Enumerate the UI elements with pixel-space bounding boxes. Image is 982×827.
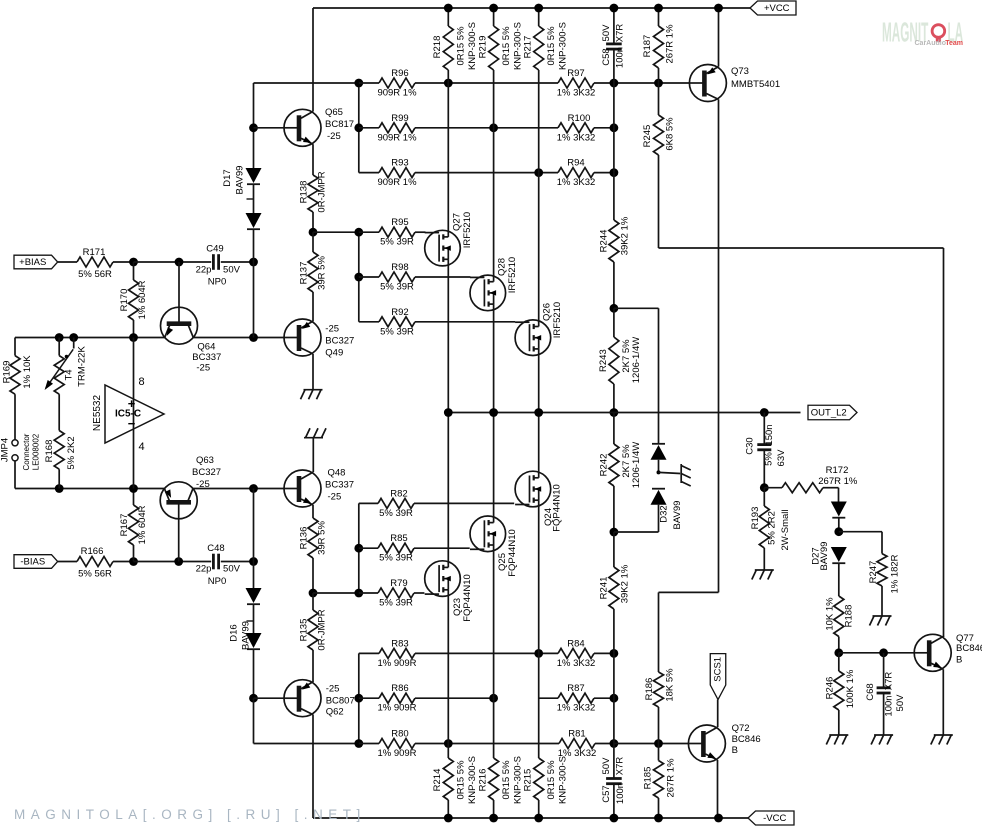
svg-text:FQP44N10: FQP44N10 (462, 574, 473, 622)
node junction C30/R193/R172 (760, 483, 769, 492)
node junction Q72 emitter rail (714, 814, 723, 823)
node junction Q65 base (249, 123, 258, 132)
wire Q25 drain to OUT (493, 413, 495, 518)
svg-text:+: + (128, 396, 136, 411)
node junction R170/opamp (129, 333, 138, 342)
svg-text:R100: R100 (568, 113, 591, 124)
wire bus rows 1-3 (358, 83, 360, 173)
wire D27 junction to R247 (839, 531, 882, 533)
svg-text:R242: R242 (599, 454, 610, 477)
node junction C57 bottom rail (610, 814, 619, 823)
resistor R215 0R15 KNP-300-S (538, 653, 540, 758)
node junction OUT/Q27-Q23 (444, 408, 453, 417)
svg-text:NP0: NP0 (208, 576, 226, 587)
mosfet Q28 IRF5210 (470, 275, 506, 311)
node junction R219 top rail (489, 4, 498, 13)
svg-text:Connector: Connector (22, 433, 31, 470)
svg-text:1% 3K32: 1% 3K32 (557, 88, 596, 99)
wire D16 column upper (253, 489, 255, 562)
node junction row11/C57col (610, 694, 619, 703)
resistor R214 0R15 KNP-300-S (447, 744, 449, 759)
node junction bus row11 (354, 694, 363, 703)
node junction R138/R137/R95 (309, 228, 318, 237)
svg-text:TRM-22K: TRM-22K (77, 346, 88, 387)
svg-text:Q28: Q28 (497, 258, 508, 276)
node junction D16 column / Q48 base (249, 484, 258, 493)
node junction Q63 base (174, 557, 183, 566)
svg-text:0R15 5%: 0R15 5% (456, 26, 467, 66)
svg-text:R84: R84 (567, 638, 584, 649)
svg-text:BC846: BC846 (732, 734, 761, 745)
svg-text:5% 39R: 5% 39R (379, 553, 413, 564)
svg-text:5% 39R: 5% 39R (380, 282, 414, 293)
svg-text:R96: R96 (391, 68, 408, 79)
svg-text:1% 3K32: 1% 3K32 (557, 177, 596, 188)
svg-text:B: B (732, 745, 738, 756)
svg-text:0R15 5%: 0R15 5% (546, 760, 557, 800)
ground below Q49 (304, 389, 323, 391)
node junction row12/R214 (444, 739, 453, 748)
resistor R137 (312, 232, 314, 252)
svg-text:JMP4: JMP4 (0, 438, 11, 462)
node junction OUT/Q28-Q25 (489, 408, 498, 417)
transistor Q49 BC327 (284, 319, 321, 356)
svg-text:R217: R217 (522, 36, 533, 59)
node junction R167/opamp (129, 484, 138, 493)
logo MAGNITOLA top right (882, 17, 963, 48)
svg-text:D17: D17 (222, 169, 233, 186)
svg-text:R136: R136 (299, 527, 310, 550)
wire C49 row (134, 261, 212, 263)
svg-text:BAV99: BAV99 (235, 166, 246, 195)
node junction row2/R219 (489, 123, 498, 132)
svg-text:R99: R99 (391, 113, 408, 124)
wire row1 left link (254, 82, 359, 84)
node junction R218 top rail (444, 4, 453, 13)
flag +BIAS (14, 255, 58, 269)
node junction R217 top rail (534, 4, 543, 13)
node junction T4 wiper (69, 333, 78, 342)
svg-text:R215: R215 (522, 769, 533, 792)
wire Q73 emitter to +VCC (718, 8, 720, 67)
diode D17 BAV99 (246, 168, 262, 183)
resistor R86 (359, 697, 379, 699)
wire -BIAS row (58, 561, 77, 563)
svg-text:1% 909R: 1% 909R (377, 703, 416, 714)
svg-text:8: 8 (138, 376, 144, 388)
svg-text:BC337: BC337 (325, 480, 354, 491)
node junction OUT/Q26-Q24 (534, 408, 543, 417)
ground below R246 (829, 734, 848, 736)
flag +VCC (750, 1, 796, 15)
wire Q64 row (15, 337, 165, 339)
node junction R214 bottom rail (444, 814, 453, 823)
svg-text:−: − (128, 416, 136, 431)
wire Q24 source column (538, 506, 540, 654)
node junction D27/R247 (834, 527, 843, 536)
resistor R167 (133, 489, 135, 506)
diode D27 BAV99 (pair) (831, 502, 847, 517)
wire OUT_L2 bus (448, 412, 800, 414)
wire Q65 base (254, 127, 285, 129)
svg-text:D32: D32 (659, 505, 670, 522)
svg-text:-25: -25 (327, 131, 341, 142)
svg-text:NE5532: NE5532 (92, 394, 103, 431)
svg-text:BC846: BC846 (956, 643, 982, 654)
svg-text:1% 3K32: 1% 3K32 (557, 658, 596, 669)
capacitor C48 (212, 554, 215, 570)
svg-text:SCS1: SCS1 (713, 657, 724, 682)
svg-text:0R15 5%: 0R15 5% (501, 26, 512, 66)
svg-text:R219: R219 (477, 36, 488, 59)
svg-text:T4: T4 (63, 369, 74, 380)
node junction R244/R243 (610, 304, 619, 313)
svg-text:1% 3K32: 1% 3K32 (557, 703, 596, 714)
svg-text:C49: C49 (206, 244, 223, 255)
svg-text:BC327: BC327 (325, 336, 354, 347)
wire D17 column upper (253, 83, 255, 168)
wire Q26 drain to OUT (538, 355, 540, 413)
svg-text:50V: 50V (223, 564, 241, 575)
svg-text:R168: R168 (44, 440, 55, 463)
svg-text:5% 2R2: 5% 2R2 (767, 511, 778, 545)
node junction bus row4 (354, 228, 363, 237)
wire R245 to Q77 collector (659, 247, 944, 249)
node junction Q62 base (249, 694, 258, 703)
svg-text:1% 604R: 1% 604R (137, 505, 148, 544)
wire bus rows 10-12 (358, 653, 360, 743)
svg-text:R171: R171 (83, 247, 106, 258)
svg-text:22p: 22p (196, 564, 212, 575)
wire Q62 emitter to -VCC rail (312, 715, 314, 818)
wire Q23 source column (447, 595, 449, 743)
svg-text:39R 5%: 39R 5% (317, 521, 328, 555)
svg-text:Q63: Q63 (196, 455, 214, 466)
node junction row11/R216 (489, 694, 498, 703)
resistor R94 (539, 172, 558, 174)
wire Q77 emitter to ground (942, 669, 944, 735)
svg-text:FQP44N10: FQP44N10 (552, 484, 563, 532)
transistor Q77 BC846 (914, 634, 951, 671)
svg-text:R246: R246 (825, 677, 836, 700)
node junction OUT/C30 (760, 408, 769, 417)
resistor R96 (359, 82, 379, 84)
wire Q72 emitter to -VCC (717, 760, 719, 818)
svg-text:Q26: Q26 (542, 303, 553, 321)
svg-text:5% 56R: 5% 56R (78, 269, 112, 280)
svg-text:R243: R243 (598, 349, 609, 372)
svg-text:BAV99: BAV99 (672, 501, 683, 530)
resistor R242 (613, 413, 615, 445)
svg-text:100n: 100n (615, 47, 626, 68)
svg-text:D16: D16 (229, 624, 240, 641)
node junction row1/R187 (654, 79, 663, 88)
wire Q65 emitter (312, 144, 314, 175)
diode D32 BAV99 (pair) (652, 443, 665, 445)
wire Q28 drain to OUT (493, 310, 495, 413)
resistor R169 (10, 356, 20, 395)
mosfet Q25 FQP44N10 (470, 516, 506, 552)
svg-text:Q62: Q62 (326, 707, 344, 718)
wire D32 to R242/R241 junction (614, 531, 659, 533)
wire Q27 drain to OUT (447, 265, 449, 413)
svg-text:50V: 50V (601, 24, 612, 42)
trimmer T4 TRM-22K (58, 338, 60, 356)
wire Q24 drain to OUT (538, 413, 540, 473)
svg-text:+VCC: +VCC (764, 3, 790, 14)
svg-text:267R 1%: 267R 1% (666, 758, 677, 798)
wire R95 row left link (313, 231, 359, 233)
connector JMP4 pin 1 (12, 440, 18, 446)
mosfet Q27 IRF5210 (425, 230, 461, 266)
svg-text:1206-1/4W: 1206-1/4W (631, 442, 642, 489)
wire Q48 emitter (312, 505, 314, 518)
node junction T4 top (55, 333, 64, 342)
svg-text:C30: C30 (745, 437, 756, 454)
svg-text:BC337: BC337 (192, 352, 221, 363)
resistor R246 (838, 653, 840, 671)
wire Q48 collector to ground (312, 438, 314, 472)
op-amp IC5-C NE5532 (133, 338, 135, 489)
svg-text:5% 39R: 5% 39R (380, 326, 414, 337)
ground right of D32 (680, 464, 682, 483)
resistor R216 0R15 KNP-300-S (493, 698, 495, 758)
resistor R244 (613, 173, 615, 220)
resistor R80 (359, 743, 379, 745)
capacitor C30 (763, 413, 765, 445)
node junction row1/C58 (610, 79, 619, 88)
transistor Q72 BC846 (688, 725, 725, 762)
resistor R241 (613, 532, 615, 567)
svg-text:R79: R79 (390, 578, 407, 589)
svg-text:R169: R169 (2, 361, 13, 384)
resistor R95 (359, 231, 379, 233)
transistor Q48 BC337 (284, 470, 321, 507)
node junction R185 bottom rail (654, 814, 663, 823)
ground below Q77 (934, 734, 953, 736)
svg-text:267R 1%: 267R 1% (664, 24, 675, 64)
svg-text:NP0: NP0 (208, 277, 226, 288)
resistor R193 (763, 488, 765, 506)
node junction R136/R135/R79 (309, 589, 318, 598)
svg-text:R85: R85 (390, 533, 407, 544)
svg-text:Q64: Q64 (197, 342, 215, 353)
resistor R82 (359, 502, 378, 504)
mosfet Q23 FQP44N10 (425, 561, 461, 597)
capacitor C57 (613, 744, 615, 779)
svg-text:5% 56R: 5% 56R (78, 569, 112, 580)
svg-text:R187: R187 (642, 35, 653, 58)
ground below C68 (874, 734, 893, 736)
node junction C48/D16 (249, 557, 258, 566)
node junction bus row1 (354, 79, 363, 88)
svg-text:0R15 5%: 0R15 5% (501, 760, 512, 800)
resistor R170 (133, 262, 135, 280)
svg-text:KNP-300-S: KNP-300-S (557, 22, 568, 70)
resistor R188 (834, 596, 844, 637)
wire D17 to BIAS row (253, 262, 255, 338)
svg-text:BAV99: BAV99 (241, 621, 252, 650)
svg-text:-25: -25 (328, 492, 342, 503)
svg-text:5% 39R: 5% 39R (379, 598, 413, 609)
svg-text:X7R: X7R (884, 672, 895, 691)
svg-text:C48: C48 (207, 543, 224, 554)
svg-text:FQP44N10: FQP44N10 (507, 529, 518, 577)
svg-text:R137: R137 (299, 262, 310, 285)
wire Q23 drain to OUT (447, 413, 449, 562)
node junction bus row5 (354, 273, 363, 282)
svg-text:R245: R245 (642, 125, 653, 148)
svg-text:IRF5210: IRF5210 (552, 302, 563, 338)
wire Q25 source column (493, 551, 495, 699)
node junction +BIAS/R170 (129, 258, 138, 267)
resistor R135 0R-JMPR (312, 593, 314, 610)
svg-text:IRF5210: IRF5210 (462, 212, 473, 248)
node junction D17 column / Q49 base (249, 333, 258, 342)
svg-text:R86: R86 (391, 683, 408, 694)
svg-text:BC807: BC807 (326, 696, 355, 707)
resistor R87 (539, 697, 558, 699)
svg-text:Q73: Q73 (731, 66, 749, 77)
wire row12 to Q72 base (614, 743, 689, 745)
svg-text:0R-JMPR: 0R-JMPR (317, 609, 328, 650)
svg-text:R166: R166 (81, 546, 104, 557)
resistor R168 (58, 394, 60, 430)
svg-text:18K 5%: 18K 5% (664, 668, 675, 702)
wire bus rows 4-6 (358, 232, 360, 322)
node junction row10/C57col (610, 649, 619, 658)
wire Q28 source column (493, 128, 495, 276)
svg-text:R83: R83 (391, 638, 408, 649)
resistor R98 (359, 276, 379, 278)
svg-text:R80: R80 (391, 729, 408, 740)
svg-text:R186: R186 (644, 678, 655, 701)
wire Q26 source column (538, 173, 540, 321)
svg-text:X7R: X7R (615, 757, 626, 776)
svg-text:R172: R172 (826, 465, 849, 476)
svg-text:39K2 1%: 39K2 1% (619, 216, 630, 255)
resistor R85 (359, 547, 378, 549)
resistor R97 (448, 82, 558, 84)
svg-text:22p: 22p (196, 265, 212, 276)
node junction R168 bottom (55, 484, 64, 493)
svg-text:R98: R98 (391, 262, 408, 273)
resistor R84 (539, 652, 558, 654)
connector JMP4 pin 2 (12, 455, 18, 461)
resistor R100 (494, 127, 558, 129)
svg-text:R193: R193 (750, 507, 761, 530)
svg-text:1% 10K: 1% 10K (22, 355, 33, 389)
capacitor C68 (883, 653, 885, 688)
flag SCS1 (710, 654, 726, 700)
flag -VCC (748, 811, 794, 825)
svg-text:-25: -25 (325, 324, 339, 335)
node junction row12/C57col (610, 739, 619, 748)
wire +VCC top rail (313, 7, 750, 9)
svg-text:39K2 1%: 39K2 1% (619, 564, 630, 603)
svg-text:-25: -25 (196, 363, 210, 374)
svg-text:R188: R188 (844, 605, 855, 628)
node junction bus row12 (354, 739, 363, 748)
wire Q63 row (15, 488, 164, 490)
wire R79 row left link (313, 592, 359, 594)
svg-text:4: 4 (138, 441, 144, 453)
svg-text:100n: 100n (615, 783, 626, 804)
svg-text:50V: 50V (223, 265, 241, 276)
resistor R217 0R15 KNP-300-S (538, 8, 540, 26)
svg-text:CarAudio: CarAudio (915, 40, 947, 47)
svg-text:1% 3K32: 1% 3K32 (557, 132, 596, 143)
transistor Q62 BC807 (284, 680, 321, 717)
transistor Q65 BC817 (284, 109, 321, 146)
node junction row2/C58col (610, 123, 619, 132)
svg-text:R185: R185 (643, 767, 654, 790)
svg-text:IRF5210: IRF5210 (507, 257, 518, 293)
ground below R193 (755, 569, 774, 571)
node junction row3/C58col (610, 168, 619, 177)
resistor R243 (613, 308, 615, 337)
svg-text:R138: R138 (299, 181, 310, 204)
node junction -BIAS/R167 (129, 557, 138, 566)
svg-text:R82: R82 (390, 488, 407, 499)
wire Q72 collector to SCS1 (717, 700, 719, 728)
capacitor C58 (613, 8, 615, 44)
resistor R172 (764, 487, 782, 489)
wire Q73 collector jog to R186 (659, 591, 719, 593)
svg-text:-25: -25 (196, 479, 210, 490)
mosfet Q24 FQP44N10 (515, 471, 551, 507)
svg-text:2W-Small: 2W-Small (780, 510, 791, 551)
resistor R219 0R15 KNP-300-S (493, 8, 495, 26)
wire bus rows 7-9 (358, 503, 360, 593)
resistor R185 (658, 744, 660, 761)
svg-text:909R 1%: 909R 1% (377, 177, 417, 188)
resistor R93 (359, 172, 379, 174)
ground above Q48 (304, 437, 323, 439)
svg-text:150n: 150n (764, 424, 775, 445)
wire Q73 collector long run (718, 99, 720, 592)
svg-text:R97: R97 (567, 68, 584, 79)
wire C57 column rows 10-12 (613, 653, 615, 743)
svg-text:R214: R214 (432, 769, 443, 792)
wire -VCC bottom rail (313, 817, 748, 819)
svg-text:R81: R81 (568, 729, 585, 740)
mosfet Q26 IRF5210 (515, 320, 551, 356)
svg-text:5% 2K2: 5% 2K2 (66, 436, 77, 469)
svg-text:R247: R247 (868, 561, 879, 584)
svg-text:5%: 5% (764, 452, 775, 466)
node junction bus row8 (354, 544, 363, 553)
wire +BIAS row (58, 261, 77, 263)
wire Q65 collector to +VCC (312, 8, 314, 111)
svg-text:50V: 50V (601, 757, 612, 775)
svg-text:1% 909R: 1% 909R (377, 658, 416, 669)
svg-text:-BIAS: -BIAS (20, 557, 45, 568)
node junction row1/R218 (444, 79, 453, 88)
wire R244 junction to D32 column (614, 307, 659, 309)
svg-text:909R 1%: 909R 1% (377, 132, 417, 143)
svg-text:R87: R87 (567, 683, 584, 694)
svg-text:267R 1%: 267R 1% (818, 476, 858, 487)
svg-text:R170: R170 (119, 289, 130, 312)
svg-text:BC817: BC817 (325, 119, 354, 130)
svg-text:Q49: Q49 (325, 348, 343, 359)
svg-text:100K 1%: 100K 1% (845, 669, 856, 708)
svg-text:BAV99: BAV99 (819, 542, 830, 571)
svg-text:10K 1%: 10K 1% (825, 597, 836, 631)
node junction R243/OUT (610, 408, 619, 417)
svg-text:+BIAS: +BIAS (19, 257, 46, 268)
